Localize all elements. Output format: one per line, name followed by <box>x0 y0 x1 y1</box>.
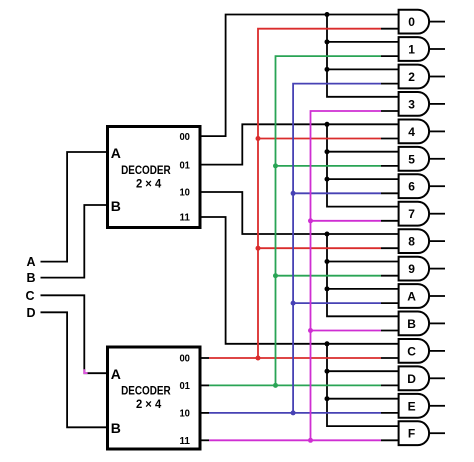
junction 00/gate1 <box>325 39 330 44</box>
junction 01 riser/main <box>273 383 278 388</box>
wire U2 out 00 main run <box>209 357 381 359</box>
svg-text:8: 8 <box>408 235 415 249</box>
and-gate GB <box>399 312 429 336</box>
wire G1 output <box>429 48 445 50</box>
junction 10/gate9 <box>325 259 330 264</box>
junction 11/gate7 <box>308 218 313 223</box>
svg-text:01: 01 <box>179 159 190 171</box>
wire 10 branch gateA top <box>327 288 399 290</box>
svg-text:2 × 4: 2 × 4 <box>136 397 161 411</box>
junction 11/gateD <box>325 369 330 374</box>
svg-text:C: C <box>407 344 416 358</box>
wire 00 branch gate4 bottom <box>258 138 381 140</box>
svg-text:5: 5 <box>408 152 415 166</box>
svg-text:D: D <box>407 372 416 386</box>
svg-text:7: 7 <box>408 207 415 221</box>
wire G5 output <box>429 158 445 160</box>
wire GC output <box>429 350 445 352</box>
wire U2 out 11 main run <box>209 439 381 441</box>
svg-text:00: 00 <box>179 353 190 365</box>
junction 10/gate6 <box>291 191 296 196</box>
wire gate7 bottom black end <box>381 220 399 222</box>
decoder U1 2x4 (top) <box>108 127 201 228</box>
junction 01/gate9 <box>273 273 278 278</box>
junction 00/gate0 <box>325 12 330 17</box>
and-gate GE <box>399 394 430 418</box>
wire 01 branch gate5 bottom <box>276 165 382 167</box>
wire gate5 bottom black end <box>381 165 399 167</box>
svg-text:A: A <box>111 145 121 161</box>
wire U2 out 00 stub (black) <box>200 357 209 359</box>
wire 00 into gateC bottom (black end) <box>381 357 399 359</box>
and-gate GD <box>399 366 430 390</box>
and-gate G2 <box>399 65 430 89</box>
wire 00 branch gate2 top <box>327 68 399 70</box>
wire input C to U2 pin A <box>41 295 108 373</box>
wire U1 out 01 up-over to gate4 top <box>200 124 399 164</box>
junction 11/gateB <box>308 328 313 333</box>
wire 00 riser to gate0 bottom <box>258 29 381 358</box>
junction 11/gateC <box>325 341 330 346</box>
wire gate8 bottom black end <box>381 247 399 249</box>
svg-text:4: 4 <box>408 125 415 139</box>
svg-text:10: 10 <box>179 187 190 199</box>
svg-text:01: 01 <box>179 380 190 392</box>
wire 11 riser to gate3 bottom <box>311 111 382 440</box>
wire 00 bus drop to gate3 top <box>327 15 399 97</box>
junction 11/gateE <box>325 396 330 401</box>
wire 10 riser to gate2 bottom <box>293 84 381 413</box>
wire G7 output <box>429 213 445 215</box>
and-gate G1 <box>399 37 430 61</box>
junction 01/gate4 <box>325 122 330 127</box>
svg-text:C: C <box>25 289 34 303</box>
wire G3 output <box>429 103 445 105</box>
wire G8 output <box>429 240 445 242</box>
wire U2 out 11 stub (black) <box>200 439 209 441</box>
and-gate G6 <box>399 174 429 198</box>
wire G6 output <box>429 185 445 187</box>
wire gate2 bottom black end <box>381 83 399 85</box>
svg-text:D: D <box>26 306 35 320</box>
svg-text:3: 3 <box>408 97 415 111</box>
wire G2 output <box>429 76 445 78</box>
and-gate GA <box>399 284 429 308</box>
wire 01 branch gate6 top <box>327 178 399 180</box>
wire U1 out 00 up-over to gate0 top <box>200 15 399 137</box>
wire U1 out 10 down-over to gate8 top <box>200 192 399 234</box>
wire gate1 bottom black end <box>381 55 399 57</box>
svg-text:B: B <box>407 317 416 331</box>
junction 10/gate8 <box>325 232 330 237</box>
paint artifact (magenta) at U2 pin A corner <box>84 369 87 373</box>
junction 10/gateA <box>325 286 330 291</box>
wire U2 out 01 main run <box>209 384 381 386</box>
svg-text:B: B <box>26 271 35 285</box>
wire 11 into gateF bottom (black end) <box>381 439 399 441</box>
wire 01 branch gate5 top <box>327 151 399 153</box>
wire GE output <box>429 405 445 407</box>
wire 10 branch gate9 top <box>327 261 399 263</box>
and-gate G9 <box>399 257 430 281</box>
wire GA output <box>429 295 445 297</box>
decoder U2 2x4 (bottom) <box>108 347 201 449</box>
svg-text:2: 2 <box>408 70 415 84</box>
wire 01 bus drop to gate7 top <box>327 124 399 206</box>
and-gate GF <box>399 421 430 445</box>
svg-text:A: A <box>26 255 35 269</box>
and-gate G7 <box>399 202 429 226</box>
svg-text:0: 0 <box>408 15 415 29</box>
wire 11 branch gateB bottom <box>311 330 382 332</box>
svg-text:11: 11 <box>179 435 190 447</box>
and-gate GC <box>399 339 429 363</box>
svg-text:00: 00 <box>179 131 190 143</box>
svg-text:E: E <box>408 399 416 413</box>
svg-text:1: 1 <box>408 43 415 57</box>
junction 01/gate5 <box>273 163 278 168</box>
wire 11 branch gate7 bottom <box>311 220 382 222</box>
wire 10 bus drop to gateB top <box>327 234 399 316</box>
wire gate6 bottom black end <box>381 192 399 194</box>
junction 00/gate4 <box>256 136 261 141</box>
junction 00/gate2 <box>325 67 330 72</box>
wire U2 out 10 main run <box>209 412 381 414</box>
wire 11 branch gateE top <box>327 398 399 400</box>
wire gate3 bottom black end <box>381 110 399 112</box>
junction 10 riser/main <box>291 410 296 415</box>
svg-text:B: B <box>111 198 121 214</box>
svg-text:11: 11 <box>179 212 190 224</box>
wire U2 out 01 stub (black) <box>200 384 209 386</box>
wire gate4 bottom black end <box>381 138 399 140</box>
wire GF output <box>429 432 445 434</box>
and-gate G8 <box>399 229 429 253</box>
wire U1 out 11 down-over to gateC top <box>200 217 399 344</box>
wire gate9 bottom black end <box>381 275 399 277</box>
wire 01 riser to gate1 bottom <box>276 56 382 385</box>
wire input A to U1 pin A <box>41 152 108 262</box>
junction 01/gate6 <box>325 177 330 182</box>
wire 10 branch gateA bottom <box>293 302 381 304</box>
wire input B to U1 pin B <box>41 205 108 278</box>
wire GD output <box>429 377 445 379</box>
wire 10 into gateE bottom (black end) <box>381 412 399 414</box>
and-gate G3 <box>399 92 429 116</box>
svg-text:DECODER: DECODER <box>121 384 171 398</box>
wire 11 branch gateD top <box>327 370 399 372</box>
wire gate0 bottom black end <box>381 28 399 30</box>
wire 00 branch gate1 top <box>327 41 399 43</box>
svg-text:2 × 4: 2 × 4 <box>136 177 161 191</box>
junction 11 riser/main <box>308 438 313 443</box>
junction 01/gate5 <box>325 149 330 154</box>
wire G9 output <box>429 268 445 270</box>
wire 10 branch gate6 bottom <box>293 192 381 194</box>
svg-text:F: F <box>408 427 415 441</box>
junction 00/gate8 <box>256 246 261 251</box>
svg-text:6: 6 <box>408 180 415 194</box>
junction 10/gateA <box>291 301 296 306</box>
wire 11 bus drop to gateF top <box>327 344 399 426</box>
wire GB output <box>429 322 445 324</box>
svg-text:A: A <box>111 366 121 382</box>
wire 01 into gateD bottom (black end) <box>381 384 399 386</box>
wire G0 output <box>429 21 445 23</box>
wire gateA bottom black end <box>381 302 399 304</box>
wire input D to U2 pin B <box>41 312 108 427</box>
wire U2 out 10 stub (black) <box>200 412 209 414</box>
svg-text:DECODER: DECODER <box>121 163 171 177</box>
junction 00 riser/main <box>256 356 261 361</box>
and-gate G4 <box>399 120 429 144</box>
wire 01 branch gate9 bottom <box>276 275 382 277</box>
and-gate G0 <box>399 10 430 34</box>
wire 00 branch gate8 bottom <box>258 247 381 249</box>
and-gate G5 <box>399 147 429 171</box>
wire G4 output <box>429 130 445 132</box>
wire gateB bottom black end <box>381 330 399 332</box>
svg-text:B: B <box>111 420 121 436</box>
svg-text:10: 10 <box>179 408 190 420</box>
svg-text:9: 9 <box>408 262 415 276</box>
svg-text:A: A <box>407 290 416 304</box>
